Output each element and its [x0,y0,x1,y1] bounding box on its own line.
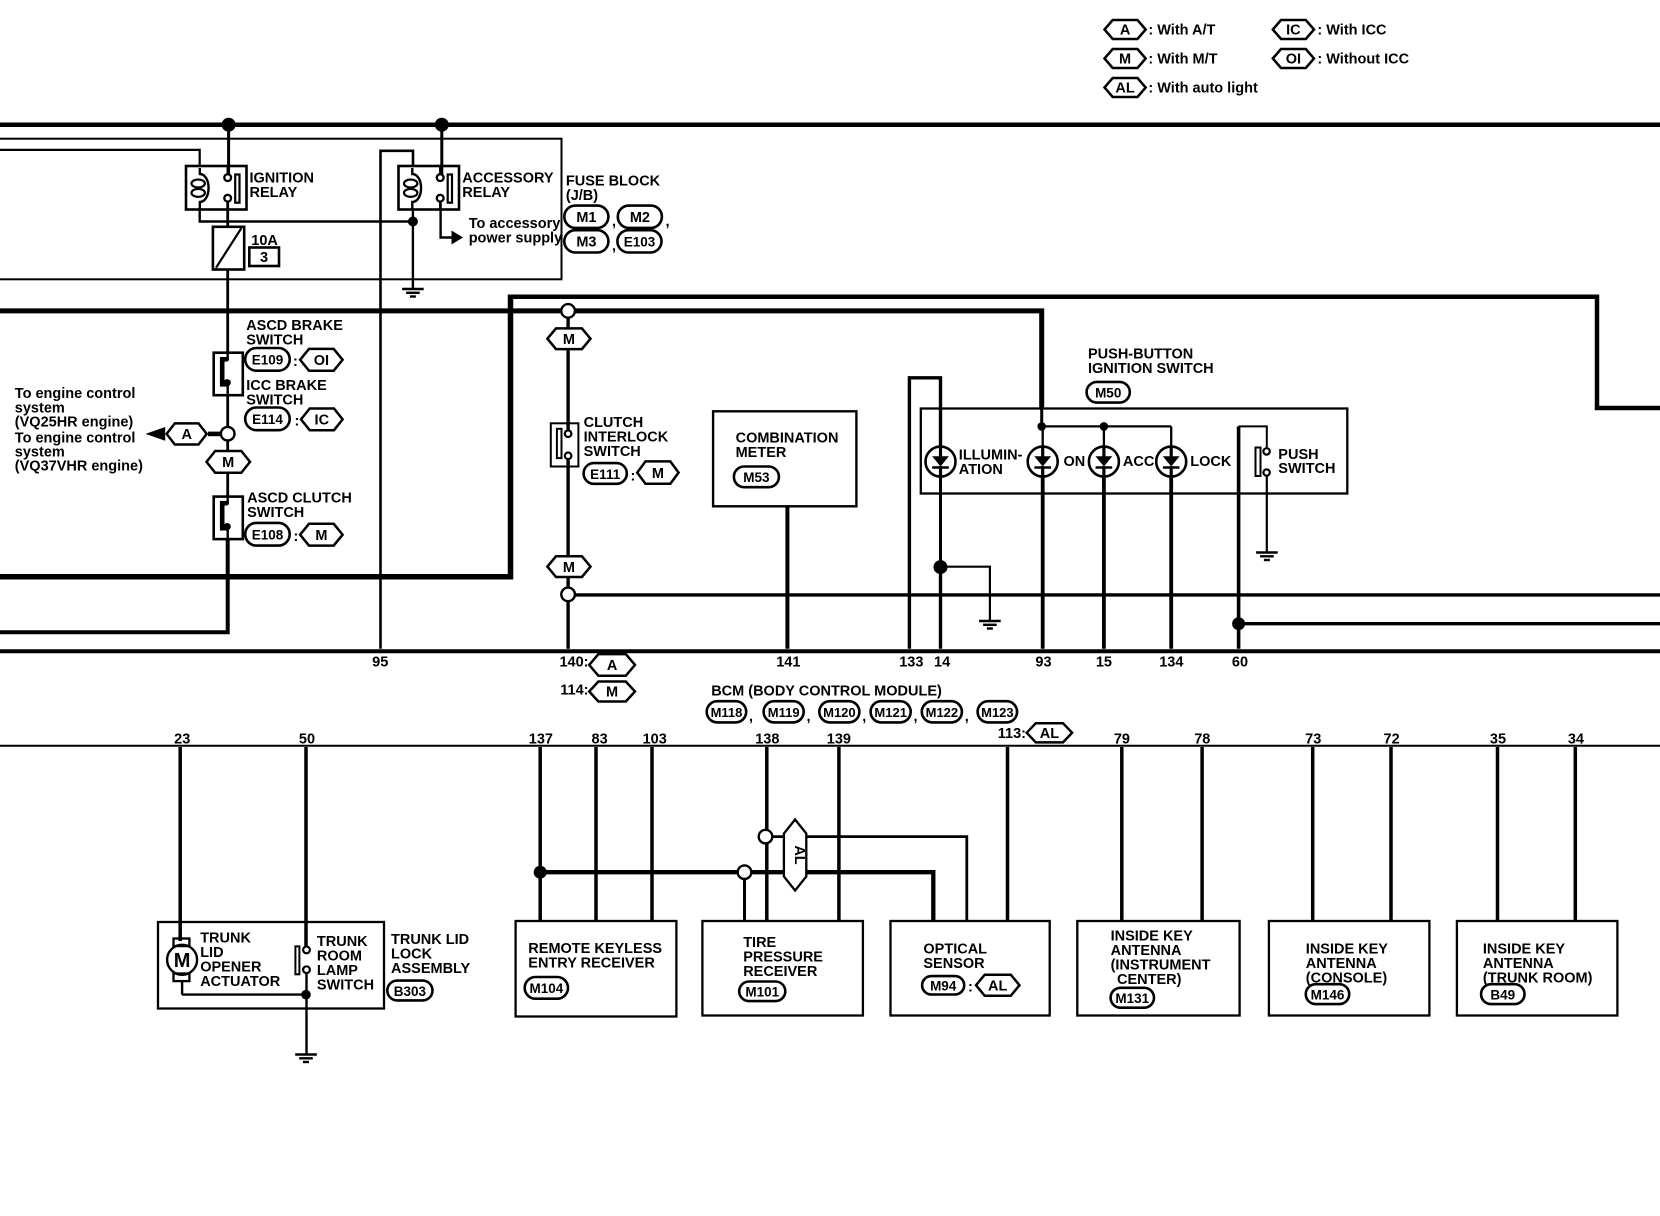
svg-text:78: 78 [1194,731,1210,747]
svg-text:IC: IC [1286,23,1301,39]
svg-text:SWITCH: SWITCH [584,444,641,460]
svg-text:M131: M131 [1115,991,1149,1006]
svg-text:(VQ37VHR engine): (VQ37VHR engine) [15,459,143,475]
svg-text:M: M [1119,52,1131,68]
svg-text:,: , [666,214,670,230]
svg-text:,: , [612,239,616,255]
svg-text:AL: AL [791,845,807,864]
svg-text:E111: E111 [590,467,621,482]
svg-text:CENTER): CENTER) [1117,972,1182,988]
svg-text:140:: 140: [559,654,588,670]
svg-text:134: 134 [1159,654,1183,670]
svg-text:OI: OI [1286,52,1301,68]
svg-text:AL: AL [988,978,1007,994]
svg-text:B303: B303 [394,984,427,999]
svg-text:138: 138 [755,731,779,747]
svg-text:: With auto light: : With auto light [1148,81,1258,97]
svg-text:E108: E108 [252,528,284,543]
svg-text:103: 103 [643,731,667,747]
svg-text:SENSOR: SENSOR [923,956,985,972]
svg-text:ACTUATOR: ACTUATOR [200,974,281,990]
svg-text:,: , [914,709,918,725]
svg-text:M119: M119 [768,705,800,720]
svg-text:ENTRY RECEIVER: ENTRY RECEIVER [528,956,655,972]
svg-text:BCM (BODY CONTROL MODULE): BCM (BODY CONTROL MODULE) [711,684,942,700]
svg-text:95: 95 [372,654,388,670]
svg-text:SWITCH: SWITCH [1278,461,1335,477]
svg-text:,: , [807,709,811,725]
svg-text::: : [968,980,973,996]
svg-text:133: 133 [899,654,923,670]
svg-text:(J/B): (J/B) [566,188,598,204]
svg-text:M: M [652,466,664,482]
svg-text:SWITCH: SWITCH [247,505,304,521]
svg-text:72: 72 [1384,731,1400,747]
svg-text:M: M [563,332,575,348]
svg-text:A: A [1120,23,1131,39]
svg-text:(CONSOLE): (CONSOLE) [1306,970,1388,986]
svg-text:M123: M123 [981,705,1014,720]
svg-text:RELAY: RELAY [462,185,510,201]
svg-text::: : [293,354,298,370]
svg-text:M: M [606,685,618,701]
svg-text:M: M [563,560,575,576]
svg-text:ATION: ATION [959,462,1003,478]
svg-text:3: 3 [260,250,268,266]
svg-text:141: 141 [776,654,800,670]
svg-text:M1: M1 [576,210,596,226]
svg-text::: : [294,529,299,545]
svg-text:(TRUNK ROOM): (TRUNK ROOM) [1483,970,1593,986]
svg-text:10A: 10A [251,233,278,249]
svg-text:A: A [181,427,192,443]
svg-text:A: A [607,658,618,674]
svg-text:83: 83 [592,731,608,747]
svg-text:60: 60 [1232,654,1248,670]
svg-text:93: 93 [1035,654,1051,670]
svg-text:M: M [222,455,234,471]
svg-text:,: , [862,709,866,725]
svg-text:: With ICC: : With ICC [1317,23,1387,39]
svg-text:73: 73 [1305,731,1321,747]
svg-text:,: , [965,709,969,725]
svg-text:114:: 114: [560,682,588,698]
svg-text:SWITCH: SWITCH [317,977,374,993]
svg-text:LOCK: LOCK [1190,454,1232,470]
svg-text:power supply: power supply [469,231,562,247]
svg-text:35: 35 [1490,731,1506,747]
svg-text:RELAY: RELAY [250,185,298,201]
svg-text:E103: E103 [624,235,656,250]
svg-text:113:: 113: [998,726,1026,742]
svg-text:ASSEMBLY: ASSEMBLY [391,961,471,977]
svg-text:M53: M53 [743,470,770,485]
svg-text::: : [295,414,300,430]
svg-text:: Without ICC: : Without ICC [1317,52,1409,68]
svg-text:34: 34 [1568,731,1584,747]
svg-text:IGNITION SWITCH: IGNITION SWITCH [1088,361,1214,377]
svg-text:139: 139 [827,731,851,747]
svg-text:: With A/T: : With A/T [1148,23,1215,39]
svg-text:E109: E109 [252,353,284,368]
svg-text:ACC: ACC [1123,454,1155,470]
svg-text:,: , [749,709,753,725]
svg-text:M50: M50 [1095,386,1121,401]
svg-text:M: M [315,528,327,544]
svg-text:SWITCH: SWITCH [246,333,303,349]
svg-text:M104: M104 [530,981,564,996]
svg-text:79: 79 [1114,731,1130,747]
svg-text:M146: M146 [1311,987,1345,1002]
svg-text:M120: M120 [823,705,856,720]
svg-text:(VQ25HR engine): (VQ25HR engine) [15,415,134,431]
svg-text:METER: METER [736,445,787,461]
svg-text:23: 23 [174,731,190,747]
svg-text:M3: M3 [576,235,596,251]
svg-text:E114: E114 [252,412,283,427]
svg-text::: : [631,469,636,485]
svg-text:14: 14 [934,654,950,670]
svg-text:IC: IC [315,413,330,429]
svg-text:AL: AL [1115,81,1134,97]
svg-text:B49: B49 [1490,987,1515,1002]
svg-text:M101: M101 [745,985,779,1000]
svg-text:OI: OI [314,353,329,369]
svg-text:: With M/T: : With M/T [1148,52,1217,68]
svg-text:M121: M121 [874,705,907,720]
svg-text:M118: M118 [711,705,743,720]
svg-text:137: 137 [529,731,553,747]
svg-text:,: , [612,214,616,230]
svg-text:RECEIVER: RECEIVER [743,964,818,980]
svg-text:M122: M122 [926,705,959,720]
svg-text:50: 50 [299,731,315,747]
svg-text:ON: ON [1064,454,1086,470]
svg-text:AL: AL [1040,726,1059,742]
svg-text:M2: M2 [630,210,650,226]
svg-text:M94: M94 [930,979,957,994]
svg-text:M: M [174,950,191,972]
svg-text:15: 15 [1096,654,1112,670]
